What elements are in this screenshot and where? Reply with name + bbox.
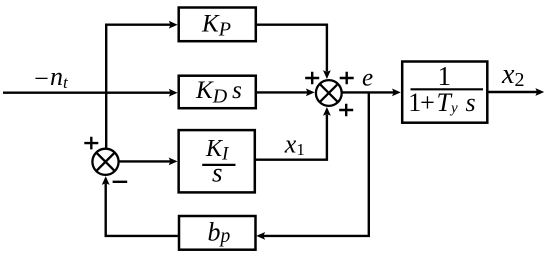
arrowhead left into bp right side (256, 232, 265, 240)
wire to KP block (105, 24, 171, 26)
svg-text:1: 1 (438, 61, 452, 91)
wire x2 output (487, 91, 538, 93)
wire e from S2 to TF block (342, 91, 394, 93)
summing junction S2 (316, 80, 342, 106)
block bp (179, 216, 256, 250)
block KI over s (179, 130, 255, 192)
wire bp output left and up into S1 bottom (106, 184, 178, 236)
arrowhead into KI block (169, 158, 178, 166)
sign plus top-left S1 (84, 137, 98, 150)
wire KP output right and down to S2 (256, 25, 327, 72)
wire S1 output to KI block (119, 160, 171, 162)
sign plus bottom-right S2 (339, 104, 353, 117)
wire feedback branch down from e row and left to bp (263, 92, 369, 236)
block KP (179, 8, 256, 42)
arrowhead into KP block (169, 21, 178, 29)
sign plus top-right S2 (340, 72, 354, 85)
arrowhead into KDs block (169, 89, 178, 97)
wire input -nt horizontal (3, 91, 171, 93)
arrowhead down into S2 top (323, 70, 331, 79)
wire branch vertical from KP row down to S1 (105, 24, 107, 148)
svg-text:1+Tys: 1+Tys (408, 88, 475, 117)
sign minus bottom-right S1 (113, 181, 128, 183)
svg-text:e: e (362, 65, 373, 92)
svg-text:s: s (212, 158, 223, 188)
arrowhead x2 end (535, 88, 544, 96)
block transfer function 1/(1+Ty s) (402, 62, 487, 123)
arrowhead up into S2 bottom (323, 107, 331, 116)
wire x1 from KI output up into S2 bottom (256, 115, 327, 160)
arrowhead up into S1 bottom (102, 176, 110, 185)
wire KDs output to S2 (256, 91, 309, 93)
fraction bar TF (411, 88, 484, 90)
arrowhead into TF block (392, 89, 401, 97)
fraction bar KI/s (202, 164, 235, 166)
sign plus top-left S2 (305, 72, 319, 85)
summing junction S1 (92, 149, 118, 175)
arrowhead into S2 left (306, 89, 315, 97)
block KDs (179, 76, 256, 109)
